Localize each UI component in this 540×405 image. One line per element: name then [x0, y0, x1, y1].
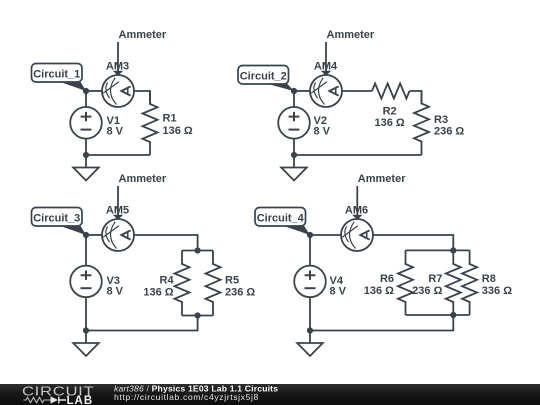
node label Circuit_1 flag	[58, 81, 87, 91]
ammeter AM3	[102, 75, 134, 107]
svg-text:Ammeter: Ammeter	[119, 173, 167, 185]
svg-text:8 V: 8 V	[330, 286, 347, 298]
ground	[281, 155, 307, 181]
junction parallel top (453.3,250.4)	[450, 247, 456, 253]
wire node A to AM3 left	[86, 90, 102, 92]
resistor R8	[462, 250, 477, 315]
svg-text:136 Ω: 136 Ω	[364, 285, 394, 297]
svg-text:136 Ω: 136 Ω	[163, 125, 193, 137]
node label Circuit_4 flag	[281, 225, 310, 235]
svg-text:136 Ω: 136 Ω	[374, 117, 404, 129]
annotation Ammeter pointer line	[117, 42, 119, 72]
annotation Ammeter pointer line	[117, 186, 119, 216]
wire node C to V3 plus	[85, 235, 87, 266]
wire to bottom rail	[310, 315, 453, 331]
svg-text:R5: R5	[225, 275, 239, 287]
resistor R5	[206, 251, 221, 316]
resistor R4	[175, 251, 190, 316]
voltage source V3	[70, 266, 102, 298]
svg-text:R4: R4	[160, 275, 175, 287]
svg-text:R2: R2	[383, 106, 397, 118]
svg-text:R3: R3	[434, 114, 448, 126]
svg-text:R8: R8	[482, 273, 496, 285]
junction node B (294,91)	[291, 88, 297, 94]
junction parallel bottom (453.3,315)	[450, 312, 456, 318]
wire R2 to R3 top	[410, 91, 422, 104]
svg-text:Circuit_1: Circuit_1	[33, 68, 80, 80]
ground	[73, 155, 99, 181]
wire V2 minus to ground node	[293, 139, 295, 155]
svg-text:Ammeter: Ammeter	[327, 29, 375, 41]
svg-text:Circuit_4: Circuit_4	[257, 212, 305, 224]
wire AM4 right to R2	[342, 90, 372, 92]
svg-text:Circuit_2: Circuit_2	[240, 70, 287, 82]
ammeter AM6	[341, 219, 373, 251]
junction ground node (86,330.5)	[83, 327, 89, 333]
wire to bottom rail	[86, 316, 198, 331]
wire V1 minus to ground node	[85, 139, 87, 155]
wire node B to V2 plus	[293, 91, 295, 107]
voltage source V4	[294, 266, 326, 298]
svg-text:http://circuitlab.com/c4yzjrts: http://circuitlab.com/c4yzjrtsjx5j8	[114, 392, 259, 402]
wire parallel top bar	[406, 249, 470, 251]
svg-text:8 V: 8 V	[107, 286, 124, 298]
resistor R1	[143, 91, 158, 155]
ground	[73, 331, 99, 357]
resistor R2	[372, 84, 410, 99]
wire node D to AM6 left	[310, 234, 341, 236]
wire node A to V1 plus	[85, 91, 87, 107]
wire parallel top bar	[182, 250, 213, 252]
svg-text:8 V: 8 V	[314, 125, 331, 137]
junction ground node (294,155)	[291, 152, 297, 158]
junction parallel bottom (197.6,315.5)	[195, 312, 201, 318]
wire R1 bottom rail	[86, 154, 150, 156]
junction ground node (86,155)	[83, 152, 89, 158]
voltage source V1	[70, 107, 102, 139]
annotation Ammeter pointer line	[325, 42, 327, 72]
svg-text:236 Ω: 236 Ω	[225, 287, 255, 299]
svg-text:336 Ω: 336 Ω	[482, 285, 512, 297]
junction node C (86,235)	[83, 232, 89, 238]
wire parallel bottom bar	[406, 314, 470, 316]
svg-text:136 Ω: 136 Ω	[143, 287, 173, 299]
annotation Ammeter pointer line	[356, 186, 358, 216]
ammeter AM5	[102, 219, 134, 251]
wire V3 minus to ground node	[85, 297, 87, 330]
svg-text:236 Ω: 236 Ω	[412, 285, 442, 297]
wire AM6 right to parallel top	[373, 235, 453, 250]
svg-text:LAB: LAB	[67, 395, 94, 405]
annotation Ammeter arrowhead	[321, 71, 331, 76]
node label Circuit_2 flag	[264, 83, 294, 91]
resistor R6	[398, 250, 413, 315]
wire node D to V4 plus	[309, 235, 311, 266]
junction node D (310,235)	[307, 232, 313, 238]
wire R3 bottom rail	[294, 154, 422, 156]
wire node C to AM5 left	[86, 234, 102, 236]
svg-text:R6: R6	[380, 273, 394, 285]
svg-text:R1: R1	[163, 113, 177, 125]
wire V4 minus to ground node	[309, 297, 311, 330]
svg-text:8 V: 8 V	[107, 125, 124, 137]
wire AM3 right to R1 top	[134, 91, 150, 104]
ground	[297, 331, 323, 357]
svg-text:236 Ω: 236 Ω	[434, 126, 464, 138]
svg-text:R7: R7	[428, 273, 442, 285]
ammeter AM4	[310, 75, 342, 107]
resistor R7	[446, 250, 461, 315]
wire AM5 right to parallel top	[134, 235, 197, 251]
wire parallel bottom bar	[182, 315, 213, 317]
svg-text:Ammeter: Ammeter	[358, 173, 406, 185]
annotation Ammeter arrowhead	[113, 71, 123, 76]
CircuitLab logo glyph (resistor + diode)	[24, 397, 67, 404]
junction parallel top (197.6,250.5)	[195, 247, 201, 253]
svg-text:Circuit_3: Circuit_3	[33, 212, 80, 224]
junction node A (86,91)	[83, 88, 89, 94]
wire node B to AM4 left	[294, 90, 310, 92]
voltage source V2	[278, 107, 310, 139]
junction ground node (310,330.5)	[307, 327, 313, 333]
annotation Ammeter arrowhead	[113, 215, 123, 220]
node label Circuit_3 flag	[58, 225, 87, 235]
svg-text:Ammeter: Ammeter	[119, 29, 167, 41]
resistor R3	[414, 91, 429, 155]
annotation Ammeter arrowhead	[352, 215, 362, 220]
